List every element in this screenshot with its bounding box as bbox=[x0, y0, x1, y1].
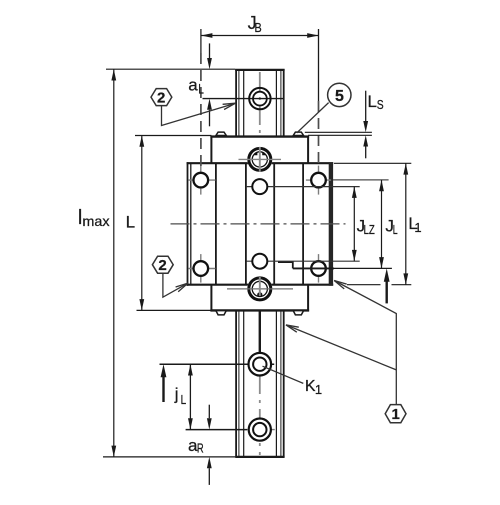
carriage body inner line 2 bbox=[245, 163, 247, 285]
rail hole upper (seen through carriage) bbox=[252, 179, 267, 194]
balloon hexagon 2 upper bbox=[151, 89, 172, 107]
carriage bottom end plate bbox=[210, 285, 309, 312]
dimension L_1 bbox=[403, 163, 421, 284]
leader from hexagon 2 upper bbox=[162, 103, 236, 125]
dimension L_S bbox=[305, 91, 384, 159]
reference arrow at bottom hole row bbox=[384, 268, 390, 303]
extension line through lower small hole (JLZ bottom) bbox=[247, 260, 360, 262]
svg-text:1: 1 bbox=[414, 220, 421, 235]
dimension j_L bbox=[174, 364, 193, 429]
rail centerline bottom segment bbox=[259, 366, 261, 455]
svg-text:L: L bbox=[126, 213, 135, 232]
rail centerline black segment below carriage bbox=[259, 296, 261, 364]
leader from hexagon 2 lower bbox=[163, 273, 188, 297]
extension line top of carriage bbox=[135, 135, 211, 137]
crosshair hole top-left bbox=[188, 166, 215, 195]
guide rail bottom segment bbox=[235, 310, 284, 457]
extension line bottom of carriage bbox=[137, 309, 212, 311]
mounting hole top-right bbox=[311, 173, 326, 188]
extension line body top right bbox=[334, 162, 411, 164]
extension line bottom of rail bbox=[103, 456, 235, 458]
lube nipple bump top-left bbox=[216, 132, 226, 135]
svg-text:R: R bbox=[197, 441, 204, 456]
svg-text:L: L bbox=[198, 82, 204, 97]
svg-text:j: j bbox=[174, 385, 179, 404]
rail hole lower (seen through carriage) bbox=[252, 254, 267, 269]
svg-text:5: 5 bbox=[335, 88, 344, 105]
rail hole bottom bbox=[186, 419, 275, 441]
horizontal centerline of carriage bbox=[171, 223, 346, 225]
extension line body bottom right bbox=[347, 284, 411, 286]
carriage body inner line 3 bbox=[273, 163, 275, 285]
dimension a_L bbox=[188, 43, 212, 126]
carriage body inner line 1 bbox=[215, 163, 217, 285]
lube port top bbox=[239, 147, 282, 172]
leader from hexagon 1 to carriage edge bbox=[334, 281, 396, 405]
svg-text:L: L bbox=[181, 392, 187, 407]
extension line top hole row right bbox=[333, 179, 389, 181]
lube port bottom bbox=[227, 276, 293, 301]
svg-text:L: L bbox=[393, 222, 398, 237]
balloon hexagon 2 lower bbox=[152, 256, 173, 274]
crosshair hole top-right bbox=[306, 166, 331, 195]
svg-text:max: max bbox=[82, 213, 109, 229]
crosshair hole bottom-left bbox=[188, 254, 215, 283]
svg-text:1: 1 bbox=[392, 406, 400, 423]
dimension l_max bbox=[78, 69, 116, 457]
svg-text:L: L bbox=[368, 92, 377, 111]
dimension L bbox=[126, 136, 145, 311]
balloon circle 5 bbox=[328, 83, 351, 106]
carriage body datum edge (thick right side) bbox=[329, 162, 333, 286]
svg-text:2: 2 bbox=[158, 257, 166, 274]
dimension a_R bbox=[188, 405, 212, 485]
carriage top end plate bbox=[210, 136, 309, 164]
extension line top of rail bbox=[106, 68, 235, 70]
mounting hole bottom-right bbox=[311, 261, 326, 276]
svg-text:a: a bbox=[188, 75, 198, 94]
svg-text:S: S bbox=[377, 97, 384, 112]
carriage body bbox=[187, 162, 334, 286]
guide rail top segment bbox=[235, 69, 284, 137]
rail centerline top segment bbox=[259, 72, 261, 146]
reference arrow at rail hole line left bbox=[161, 364, 167, 402]
dimension J_B bbox=[201, 13, 319, 168]
leader from circle 5 bbox=[297, 103, 329, 133]
mounting hole top-left bbox=[194, 173, 209, 188]
rail hole middle (below carriage) bbox=[160, 353, 275, 376]
lube nipple bump bottom-left bbox=[216, 311, 226, 315]
extension line bottom hole row right bbox=[293, 267, 392, 269]
extension line through upper small hole (JLZ top) bbox=[246, 186, 360, 188]
svg-text:1: 1 bbox=[315, 382, 322, 397]
carriage body inner line 4 bbox=[302, 163, 304, 285]
leader from hexagon 1 to rail edge bbox=[286, 325, 396, 370]
svg-text:LZ: LZ bbox=[364, 222, 375, 237]
mounting hole bottom-left bbox=[194, 261, 209, 276]
svg-text:B: B bbox=[255, 20, 262, 35]
reference step notch bbox=[278, 261, 293, 268]
rail centerline middle gray segment bbox=[259, 147, 261, 291]
crosshair hole bottom-right bbox=[318, 254, 320, 283]
lube nipple bump top-right bbox=[293, 132, 303, 135]
lube nipple bump bottom-right bbox=[293, 311, 303, 315]
dimension J_L bbox=[379, 180, 398, 269]
label K_1 with leader bbox=[263, 366, 323, 397]
balloon hexagon 1 bbox=[385, 405, 406, 424]
dimension J_LZ bbox=[352, 187, 375, 262]
rail hole top (above carriage) bbox=[203, 88, 284, 109]
svg-text:2: 2 bbox=[157, 90, 165, 107]
